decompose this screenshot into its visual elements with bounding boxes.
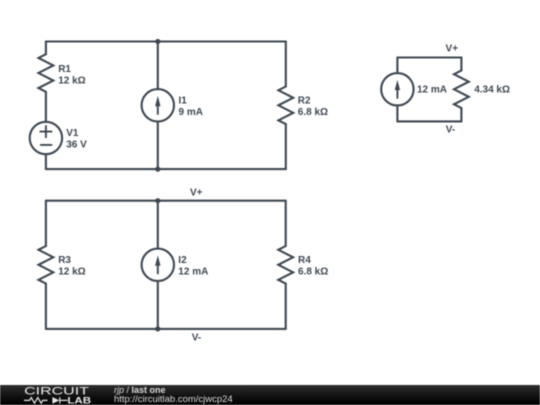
svg-text:R4: R4 — [298, 255, 311, 266]
svg-text:36 V: 36 V — [66, 140, 87, 151]
svg-text:LAB: LAB — [67, 396, 91, 405]
svg-text:R2: R2 — [298, 96, 311, 107]
svg-text:12 kΩ: 12 kΩ — [58, 267, 85, 278]
svg-text:12 kΩ: 12 kΩ — [58, 75, 85, 86]
svg-text:12 mA: 12 mA — [417, 85, 447, 96]
svg-text:6.8 kΩ: 6.8 kΩ — [298, 267, 328, 278]
svg-text:I2: I2 — [178, 255, 187, 266]
svg-text:V-: V- — [192, 333, 201, 344]
svg-text:I1: I1 — [179, 95, 188, 106]
svg-text:V-: V- — [446, 124, 455, 135]
svg-text:R3: R3 — [58, 255, 71, 266]
svg-text:4.34 kΩ: 4.34 kΩ — [474, 85, 510, 96]
svg-text:6.8 kΩ: 6.8 kΩ — [298, 107, 328, 118]
svg-text:9 mA: 9 mA — [179, 107, 203, 118]
svg-text:V1: V1 — [66, 128, 79, 139]
svg-text:V+: V+ — [190, 188, 203, 199]
svg-text:http://circuitlab.com/cjwcp24: http://circuitlab.com/cjwcp24 — [114, 394, 233, 404]
svg-text:12 mA: 12 mA — [178, 267, 208, 278]
svg-text:R1: R1 — [58, 64, 71, 75]
svg-text:V+: V+ — [446, 43, 459, 54]
